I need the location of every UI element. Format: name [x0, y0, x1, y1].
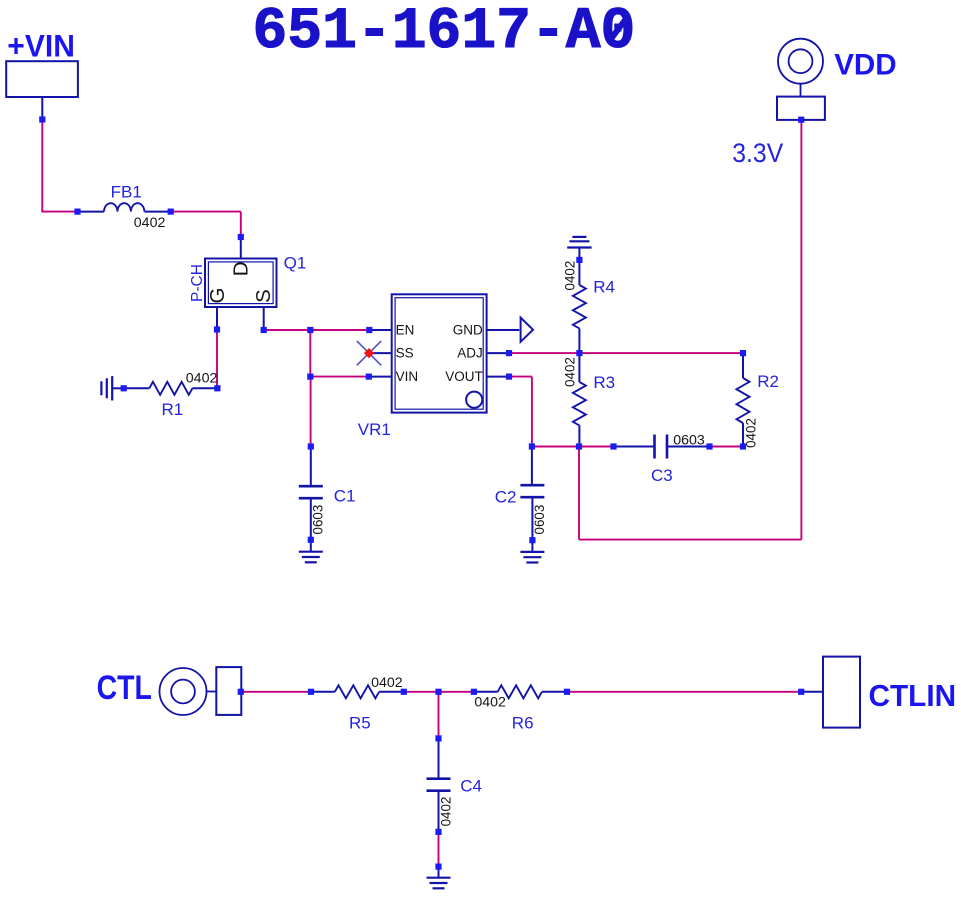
- svg-text:0402: 0402: [134, 215, 166, 231]
- svg-text:G: G: [206, 288, 229, 304]
- svg-text:D: D: [229, 261, 252, 276]
- svg-text:0402: 0402: [563, 261, 578, 291]
- svg-text:VOUT: VOUT: [445, 369, 483, 384]
- svg-text:Q1: Q1: [284, 253, 307, 272]
- svg-text:0402: 0402: [438, 797, 453, 827]
- svg-text:C4: C4: [460, 776, 482, 795]
- svg-text:R6: R6: [512, 713, 534, 732]
- svg-text:SS: SS: [396, 345, 414, 360]
- svg-text:R4: R4: [593, 278, 615, 297]
- svg-text:0402: 0402: [186, 371, 218, 387]
- svg-text:CTL: CTL: [97, 669, 152, 707]
- svg-text:0402: 0402: [563, 357, 578, 387]
- svg-text:VIN: VIN: [396, 369, 419, 384]
- svg-text:C1: C1: [334, 487, 356, 506]
- svg-text:C3: C3: [651, 466, 673, 485]
- svg-text:CTLIN: CTLIN: [869, 678, 957, 713]
- svg-text:651-1617-A0: 651-1617-A0: [253, 0, 636, 65]
- svg-text:ADJ: ADJ: [457, 345, 483, 360]
- svg-text:3.3V: 3.3V: [732, 138, 783, 168]
- svg-text:0402: 0402: [371, 675, 403, 691]
- svg-text:+VIN: +VIN: [7, 28, 75, 63]
- svg-text:P-CH: P-CH: [189, 264, 206, 302]
- svg-text:FB1: FB1: [111, 183, 142, 202]
- svg-text:EN: EN: [396, 322, 415, 337]
- svg-text:VDD: VDD: [834, 49, 897, 82]
- svg-text:0402: 0402: [474, 695, 506, 711]
- svg-text:R1: R1: [162, 400, 184, 419]
- svg-text:0603: 0603: [311, 505, 326, 535]
- svg-text:0603: 0603: [673, 433, 705, 449]
- svg-text:GND: GND: [453, 322, 483, 337]
- svg-text:VR1: VR1: [358, 420, 391, 439]
- svg-text:R3: R3: [593, 373, 615, 392]
- svg-text:S: S: [252, 289, 275, 303]
- svg-text:0603: 0603: [532, 505, 547, 535]
- svg-text:R5: R5: [349, 713, 371, 732]
- svg-text:C2: C2: [495, 487, 517, 506]
- svg-text:R2: R2: [757, 372, 779, 391]
